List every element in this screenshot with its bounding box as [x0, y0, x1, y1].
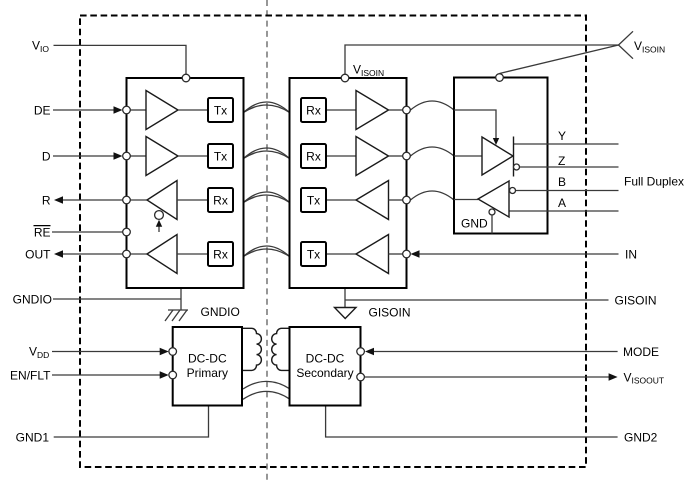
svg-text:GNDIO: GNDIO — [13, 292, 52, 306]
svg-text:DE: DE — [34, 103, 51, 117]
svg-text:Secondary: Secondary — [296, 366, 353, 380]
svg-text:Tx: Tx — [307, 193, 320, 207]
svg-text:DC-DC: DC-DC — [188, 352, 227, 366]
svg-text:IN: IN — [625, 247, 637, 261]
svg-text:R: R — [42, 193, 51, 207]
svg-text:EN/FLT: EN/FLT — [10, 368, 51, 382]
svg-text:B: B — [558, 175, 566, 189]
svg-text:Tx: Tx — [307, 247, 320, 261]
svg-text:Tx: Tx — [214, 103, 227, 117]
svg-text:Rx: Rx — [306, 103, 321, 117]
svg-text:GISOIN: GISOIN — [369, 306, 411, 320]
svg-text:Rx: Rx — [306, 149, 321, 163]
svg-text:Z: Z — [558, 154, 565, 168]
svg-text:GND: GND — [461, 217, 488, 231]
svg-text:A: A — [558, 196, 566, 210]
svg-text:DC-DC: DC-DC — [306, 352, 345, 366]
svg-text:OUT: OUT — [25, 247, 51, 261]
svg-text:Rx: Rx — [213, 193, 228, 207]
svg-text:Tx: Tx — [214, 149, 227, 163]
svg-text:GND2: GND2 — [624, 430, 658, 444]
svg-text:GNDIO: GNDIO — [201, 305, 240, 319]
svg-text:GND1: GND1 — [16, 430, 50, 444]
svg-text:Rx: Rx — [213, 247, 228, 261]
svg-text:Y: Y — [558, 129, 566, 143]
svg-text:GISOIN: GISOIN — [615, 293, 657, 307]
svg-text:D: D — [42, 149, 51, 163]
svg-text:Primary: Primary — [187, 366, 228, 380]
svg-text:MODE: MODE — [623, 345, 659, 359]
svg-text:RE: RE — [34, 225, 51, 239]
svg-text:Full Duplex: Full Duplex — [624, 174, 684, 188]
